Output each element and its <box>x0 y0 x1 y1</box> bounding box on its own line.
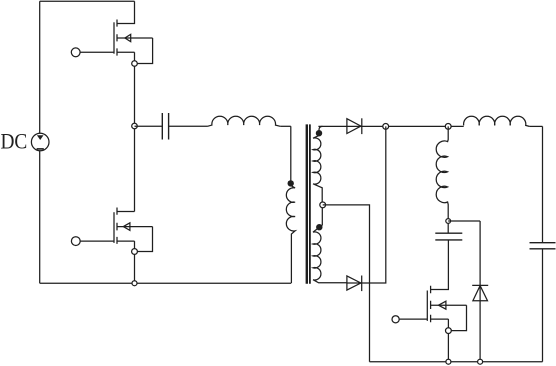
capacitor C2 <box>435 233 462 240</box>
diode D1 (top rectifier) <box>347 118 362 134</box>
transformer T1 secondary upper winding <box>313 126 323 202</box>
wire Q1 source to node A <box>134 52 136 211</box>
dc source V1 <box>31 133 49 151</box>
diode D3 (vertical) <box>472 221 488 362</box>
wire center tap to output return <box>323 205 370 362</box>
node A (half-bridge midpoint) <box>132 123 138 129</box>
wire L2 to right rail <box>529 125 542 127</box>
diode D2 (bottom rectifier) <box>347 276 362 292</box>
gate drive circle Q3 <box>392 316 399 323</box>
node Q1 source <box>132 61 138 67</box>
node center tap <box>320 202 326 208</box>
polarity dot secondary lower <box>316 224 322 230</box>
inductor L2 (output filter) <box>464 116 530 126</box>
wire left rail lower <box>39 151 41 283</box>
node rectifier output <box>383 124 389 130</box>
wire Q3 source to bottom rail <box>447 319 449 362</box>
node L2/L3 junction <box>445 124 451 130</box>
wire node A to C1 <box>135 125 163 127</box>
transformer T1 primary winding <box>286 126 295 283</box>
wire left rail upper <box>39 1 41 133</box>
node Q3 bottom rail <box>446 359 451 364</box>
svg-text:DC: DC <box>1 130 28 154</box>
wire node to D3 <box>448 220 480 222</box>
node bottom rail junction <box>132 281 137 286</box>
wire L1 to transformer primary <box>280 125 291 127</box>
transistor Q1 (upper MOSFET) <box>80 1 153 63</box>
wire Q2 source to bottom rail <box>134 241 136 283</box>
wire right rail lower <box>542 249 544 362</box>
transformer T1 core <box>307 124 310 283</box>
transformer T1 secondary lower winding <box>313 208 347 283</box>
polarity dot secondary upper <box>316 130 322 136</box>
wire right rail upper <box>542 126 544 242</box>
inductor L1 (series resonant) <box>208 116 281 126</box>
node L3 bottom <box>446 219 451 224</box>
wire bottom rail primary <box>40 282 291 284</box>
gate drive circle Q1 <box>71 48 80 57</box>
wire secondary top to rectifier row <box>318 125 463 127</box>
node Q3 source <box>446 328 452 334</box>
wire D2 cathode riser <box>347 126 386 283</box>
inductor L3 (vertical) <box>436 126 448 233</box>
capacitor C3 (output) <box>530 243 556 249</box>
capacitor C1 (series resonant) <box>162 113 168 140</box>
transistor Q3 (sync MOSFET) <box>399 240 466 331</box>
wire top rail <box>40 0 135 2</box>
gate drive circle Q2 <box>71 237 80 246</box>
polarity dot primary <box>288 180 294 186</box>
wire bottom output rail <box>370 361 543 363</box>
node Q2 source <box>132 249 138 255</box>
transistor Q2 (lower MOSFET) <box>80 208 152 252</box>
node D3 bottom rail <box>478 359 483 364</box>
wire C1 to L1 <box>169 125 208 127</box>
